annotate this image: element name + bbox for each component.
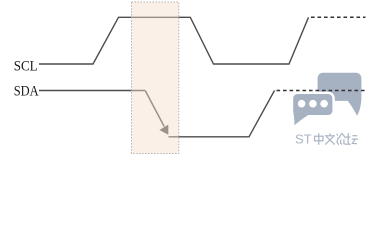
logo chat bubble back (right) <box>318 73 362 116</box>
svg-text:ST: ST <box>295 132 312 147</box>
SDA waveform low + rise <box>169 91 275 137</box>
glyph 中 <box>315 136 323 141</box>
svg-text:SCL: SCL <box>14 58 38 74</box>
glyph 坛 <box>347 133 349 144</box>
SCL waveform dashed continuation <box>311 16 366 18</box>
SDA waveform high solid <box>39 90 145 92</box>
SDA waveform dashed continuation <box>277 90 367 92</box>
annotation arrow shaft <box>145 91 164 127</box>
logo dots <box>298 100 328 108</box>
annotation arrowhead <box>159 125 168 135</box>
logo text CJK strokes 中文论坛 <box>315 133 358 145</box>
logo chat bubble front (left) with white outline <box>292 93 334 129</box>
glyph 论 <box>337 134 338 136</box>
highlight band <box>132 2 179 154</box>
svg-text:SDA: SDA <box>14 84 40 100</box>
glyph 文 <box>329 133 332 135</box>
SCL waveform solid <box>39 17 309 64</box>
